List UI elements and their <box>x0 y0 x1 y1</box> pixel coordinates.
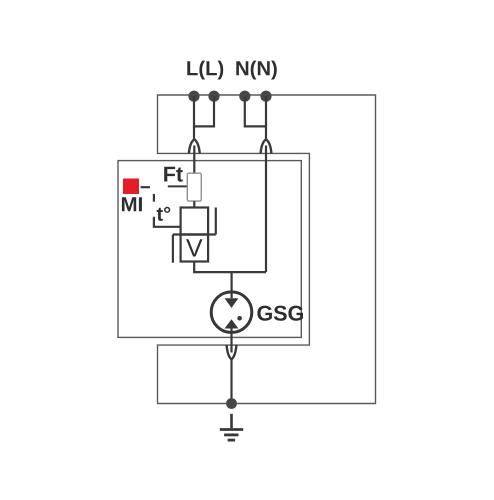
wire L2 jog <box>194 96 214 126</box>
SPD module box <box>118 161 301 338</box>
label L(L) <box>187 61 223 80</box>
divider extension <box>173 233 216 235</box>
thermal link dash 1 <box>141 186 150 188</box>
GDT up triangle <box>225 319 239 328</box>
label GSG <box>257 306 303 321</box>
plug connector L <box>189 139 200 153</box>
wire N1 jog <box>245 96 266 126</box>
label Ft <box>164 167 183 182</box>
thermal link dash 3 + corner to disconnector <box>154 217 181 227</box>
plug connector bottom <box>227 345 237 360</box>
wire GSG drop <box>231 272 233 298</box>
label N(N) <box>236 61 276 80</box>
label t° <box>157 207 171 221</box>
ground lead <box>230 414 233 429</box>
plug connector N <box>261 139 272 153</box>
ground bar 3 <box>228 439 236 442</box>
wire to earth junction <box>230 360 232 404</box>
GDT down triangle <box>225 298 239 308</box>
terminal dot L2 <box>208 91 219 102</box>
GDT GSG circle <box>211 292 252 333</box>
terminal dot N2 <box>260 91 271 102</box>
ground bar 1 <box>220 428 243 431</box>
plug pin L <box>193 146 195 174</box>
thermal disconnector box <box>181 208 209 235</box>
red indicator MI <box>123 179 139 195</box>
plug pin N / N branch <box>265 146 267 273</box>
wire junction horizontal <box>193 271 266 273</box>
fuse Ft <box>187 173 201 201</box>
varistor box <box>181 235 209 262</box>
wire L drop <box>193 96 195 139</box>
terminal dot N1 <box>239 91 250 102</box>
label V <box>186 239 202 256</box>
wire varistor down <box>193 262 195 273</box>
wire N drop <box>265 96 267 139</box>
thermal link dash 2 <box>153 194 155 202</box>
label MI <box>122 197 142 211</box>
Ft pointer line <box>168 185 188 187</box>
GDT dot <box>237 316 242 321</box>
ground bar 2 <box>224 433 238 436</box>
terminal dot L1 <box>188 91 199 102</box>
wire fuse to disconnector <box>193 201 195 207</box>
wire GSG down <box>230 329 232 353</box>
outer protective circuit loop <box>158 95 376 404</box>
right bracket <box>215 208 217 235</box>
left bracket <box>172 235 174 263</box>
earth junction dot <box>226 398 237 409</box>
